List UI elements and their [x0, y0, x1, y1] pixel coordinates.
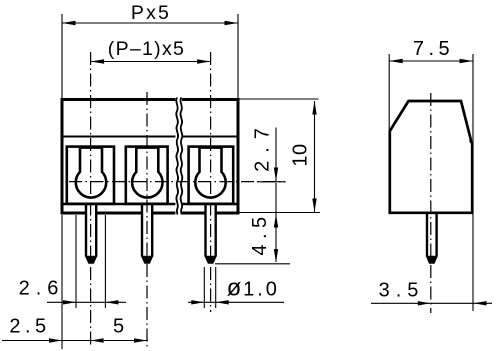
recess bottom line — [63, 203, 237, 206]
pin 1 — [85, 205, 98, 264]
side view pin — [426, 214, 438, 264]
svg-text:Px5: Px5 — [131, 2, 171, 24]
dimension diameter 1.0 — [188, 267, 284, 308]
svg-text:3.5: 3.5 — [379, 280, 425, 302]
recess square pole 2 — [126, 147, 168, 204]
svg-text:ø: ø — [227, 275, 242, 302]
svg-text:(P–1)x5: (P–1)x5 — [108, 38, 185, 60]
screw clamp keyhole pole 2 — [132, 148, 162, 198]
screw axis center line (horizontal) — [69, 181, 286, 183]
dimension 2.7 — [257, 128, 286, 182]
dimension 7.5 — [389, 54, 473, 311]
recess square pole 3 — [189, 147, 234, 204]
center line pole 1 (vertical) — [90, 52, 92, 348]
screw clamp keyhole pole 3 — [195, 148, 225, 198]
pin 2 — [141, 205, 154, 264]
svg-text:5: 5 — [113, 316, 124, 338]
dimension 2.5 and 5 — [2, 215, 148, 349]
dimension 3.5 — [371, 302, 492, 304]
pin 3 — [204, 205, 217, 264]
recess square pole 1 — [67, 147, 114, 204]
dimension (P-1)x5 — [91, 61, 211, 63]
svg-text:2.7: 2.7 — [252, 120, 274, 172]
screw clamp keyhole pole 1 — [76, 148, 106, 198]
svg-text:2.5: 2.5 — [9, 316, 50, 338]
svg-text:1.0: 1.0 — [243, 279, 280, 301]
svg-text:7.5: 7.5 — [413, 38, 454, 60]
center line pole 3 (vertical) — [210, 52, 212, 312]
svg-text:4.5: 4.5 — [249, 211, 271, 255]
break gap mask — [175, 97, 182, 216]
dimension 2.6 — [47, 215, 126, 308]
center line pole 2 (vertical) — [146, 92, 148, 348]
front view body outline — [62, 100, 238, 214]
cover separator line — [62, 136, 238, 138]
break wavy line left — [176, 98, 178, 215]
dimension 4.5 — [215, 183, 290, 264]
dimension 10 — [240, 99, 321, 213]
svg-text:10: 10 — [290, 143, 312, 166]
side view center line — [430, 93, 432, 313]
dimension Px5 — [62, 14, 238, 98]
side view body outline — [390, 101, 472, 213]
svg-text:2.6: 2.6 — [19, 278, 65, 300]
break wavy line right — [180, 98, 182, 215]
